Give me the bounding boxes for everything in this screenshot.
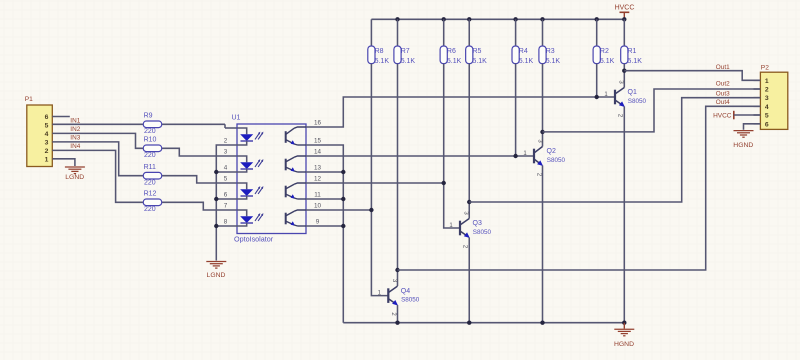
ground HGND (rail) — [614, 323, 634, 349]
svg-text:Out4: Out4 — [716, 99, 730, 106]
svg-text:5.1K: 5.1K — [546, 58, 561, 65]
svg-text:4: 4 — [765, 104, 769, 111]
svg-text:R5: R5 — [472, 48, 481, 55]
svg-text:IN4: IN4 — [70, 143, 80, 150]
svg-text:3: 3 — [45, 139, 49, 146]
svg-text:HVCC: HVCC — [713, 112, 732, 119]
svg-text:2: 2 — [765, 87, 769, 94]
power HVCC (top) — [615, 5, 635, 20]
svg-text:5.1K: 5.1K — [600, 58, 615, 65]
wire Q4 emitter down — [397, 305, 399, 323]
node IN3 label — [70, 134, 80, 141]
svg-text:Out2: Out2 — [716, 81, 730, 88]
diode LED2 of U1 (pins 3,4) — [237, 156, 253, 172]
svg-text:13: 13 — [314, 164, 322, 171]
wire HVCC top rail — [371, 18, 624, 20]
svg-text:3: 3 — [765, 95, 769, 102]
wire U1 pin9 stub to emitter bus — [306, 225, 343, 227]
svg-text:Q3: Q3 — [473, 220, 482, 227]
svg-text:P1: P1 — [25, 96, 33, 103]
wire U1 pin15 emitter common down — [306, 145, 343, 323]
svg-text:LGND: LGND — [65, 174, 84, 181]
svg-text:S8050: S8050 — [628, 98, 647, 105]
diode LED1 of U1 (pins 1,2) — [237, 128, 253, 145]
power HVCC (P2 pin5) — [713, 111, 760, 120]
svg-text:220: 220 — [144, 206, 156, 213]
wire Out2 net (Q2 collector to P2 pin2) — [543, 89, 761, 132]
svg-text:R4: R4 — [519, 48, 528, 55]
svg-text:Q1: Q1 — [628, 89, 637, 96]
svg-text:Out3: Out3 — [716, 91, 730, 98]
svg-text:OptoIsolator: OptoIsolator — [234, 235, 274, 244]
diode LED4 of U1 (pins 7,8) — [237, 210, 253, 226]
svg-text:220: 220 — [144, 179, 156, 186]
svg-text:220: 220 — [144, 152, 156, 159]
ground LGND (U1) — [206, 262, 226, 280]
transistor phototransistor 2 of U1 — [285, 156, 306, 172]
svg-text:Q2: Q2 — [547, 148, 556, 155]
svg-text:S8050: S8050 — [473, 229, 492, 236]
wire Q1 emitter down — [623, 107, 625, 323]
transistor Q1 — [604, 80, 646, 118]
junction dots emitter bus — [341, 170, 345, 228]
light arrows channel 4 — [255, 213, 263, 221]
svg-text:15: 15 — [314, 137, 322, 144]
svg-text:R12: R12 — [144, 191, 157, 198]
svg-text:5.1K: 5.1K — [375, 58, 390, 65]
resistor R2 (5.1K pull-up) — [593, 19, 615, 65]
wire P1 pin6 stub — [52, 116, 70, 118]
svg-text:6: 6 — [45, 114, 49, 121]
wire Out1 net (Q1 collector to P2 pin1) — [624, 71, 760, 81]
svg-text:4: 4 — [224, 164, 228, 171]
svg-text:R9: R9 — [144, 113, 153, 120]
wire R2 bottom to Q1 base net — [596, 64, 598, 97]
svg-text:5: 5 — [45, 123, 49, 130]
svg-text:2: 2 — [224, 137, 228, 144]
svg-text:HVCC: HVCC — [615, 5, 635, 12]
U1 left pin numbers 1-8 — [224, 137, 228, 225]
svg-text:P2: P2 — [761, 65, 769, 72]
connector P2 — [754, 65, 788, 130]
U1 right pin numbers 16-9 — [314, 119, 322, 225]
junction dots collectors — [395, 69, 626, 273]
svg-text:7: 7 — [224, 202, 228, 209]
node IN1 label — [70, 117, 80, 124]
light arrows channel 1 — [255, 132, 263, 140]
transistor phototransistor 4 of U1 — [285, 210, 306, 226]
resistor R11 — [143, 164, 161, 186]
wire Q2 emitter down — [542, 166, 544, 323]
wire P2 pin6 to HGND — [744, 124, 761, 130]
junction dots on HVCC rail — [395, 17, 626, 21]
ground HGND (P2) — [733, 131, 753, 149]
transistor phototransistor 1 of U1 — [285, 127, 306, 145]
svg-text:6: 6 — [765, 121, 769, 128]
wire U1 pin11 stub to emitter bus — [306, 198, 343, 200]
wire R6 bottom then to Q3 base — [444, 64, 460, 228]
light arrows channel 3 — [255, 186, 263, 194]
svg-text:R6: R6 — [447, 48, 456, 55]
svg-text:5.1K: 5.1K — [401, 58, 416, 65]
wire U1 pin13 stub to emitter bus — [306, 171, 343, 173]
junction dots on ground rail — [395, 321, 626, 325]
wire U1 pin10 to R8 junction — [306, 209, 371, 211]
svg-text:R7: R7 — [401, 48, 410, 55]
transistor Q4 — [378, 279, 420, 317]
node Out3 label — [716, 91, 730, 98]
svg-text:5.1K: 5.1K — [519, 58, 534, 65]
svg-text:Q4: Q4 — [401, 288, 410, 295]
svg-text:LGND: LGND — [207, 272, 226, 279]
svg-text:IN2: IN2 — [70, 126, 80, 133]
resistor R12 — [143, 191, 161, 213]
resistor R4 (5.1K pull-up) — [512, 19, 534, 65]
resistor R9 — [143, 113, 161, 135]
svg-text:S8050: S8050 — [547, 157, 566, 164]
junction dots cathode bus — [214, 170, 218, 228]
svg-text:10: 10 — [314, 202, 322, 209]
svg-text:1: 1 — [45, 156, 49, 163]
svg-text:S8050: S8050 — [401, 297, 420, 304]
resistor R5 (5.1K pull-up) — [466, 19, 488, 65]
connector P1 — [25, 96, 53, 166]
node IN4 label — [70, 143, 80, 150]
svg-text:R8: R8 — [375, 48, 384, 55]
junction dots base nets — [369, 95, 599, 212]
node Out4 label — [716, 99, 730, 106]
wire U1 cathode common (pins 2,4,6,8) — [216, 145, 237, 261]
svg-text:U1: U1 — [232, 115, 241, 122]
svg-text:14: 14 — [314, 148, 322, 155]
op-amp U1 body (OptoIsolator) — [232, 115, 307, 244]
svg-text:R10: R10 — [144, 137, 157, 144]
svg-text:8: 8 — [224, 218, 228, 225]
svg-text:5.1K: 5.1K — [447, 58, 462, 65]
svg-text:5: 5 — [224, 175, 228, 182]
svg-text:1: 1 — [765, 78, 769, 85]
svg-text:R1: R1 — [628, 48, 637, 55]
node Out2 label — [716, 81, 730, 88]
node IN2 label — [70, 126, 80, 133]
svg-text:4: 4 — [45, 131, 49, 138]
svg-text:R11: R11 — [144, 164, 156, 171]
svg-text:5.1K: 5.1K — [628, 58, 643, 65]
resistor R7 (5.1K pull-up) — [394, 19, 416, 65]
transistor Q3 — [449, 211, 491, 249]
wire R7 bottom to Q4 collector — [397, 64, 399, 286]
svg-text:IN1: IN1 — [70, 117, 80, 124]
svg-text:HGND: HGND — [733, 142, 753, 149]
svg-text:9: 9 — [316, 218, 320, 225]
wire R5 bottom to Q3 collector — [468, 64, 470, 219]
wire IN2 net (P1 pin4 to R10 to U1 pin3) — [52, 133, 237, 156]
svg-text:IN3: IN3 — [70, 134, 80, 141]
wire R8 bottom then to Q4 base — [371, 64, 388, 296]
svg-text:5.1K: 5.1K — [472, 58, 487, 65]
resistor R1 (5.1K pull-up) — [621, 19, 643, 65]
svg-text:5: 5 — [765, 113, 769, 120]
svg-text:220: 220 — [144, 128, 156, 135]
svg-text:R3: R3 — [546, 48, 555, 55]
transistor Q2 — [523, 139, 565, 177]
wire IN1 net (P1 pin5 to R9 to U1 pin1) — [52, 124, 237, 128]
wire Out3 net (Q3 collector to P2 pin3) — [469, 98, 760, 202]
resistor R10 — [143, 137, 161, 159]
wire Out4 net (Q4 collector to P2 pin4) — [398, 106, 761, 270]
resistor R3 (5.1K pull-up) — [539, 19, 561, 65]
wire IN3 net (P1 pin3 to R11 to U1 pin5) — [52, 142, 237, 183]
node Out1 label — [716, 64, 730, 71]
transistor phototransistor 3 of U1 — [285, 183, 306, 199]
wire R1 bottom to Q1 collector — [623, 64, 625, 88]
wire R4 bottom to Q2 base net — [515, 64, 517, 156]
svg-text:Out1: Out1 — [716, 64, 730, 71]
diode LED3 of U1 (pins 5,6) — [237, 183, 253, 199]
light arrows channel 2 — [255, 159, 263, 167]
wire R3 bottom to Q2 collector — [542, 64, 544, 147]
resistor R8 (5.1K pull-up) — [368, 19, 390, 65]
wire bottom ground rail — [343, 322, 624, 324]
svg-text:12: 12 — [314, 175, 322, 182]
ground LGND (P1) — [65, 167, 85, 181]
svg-text:3: 3 — [224, 148, 228, 155]
resistor R6 (5.1K pull-up) — [440, 19, 462, 65]
svg-text:16: 16 — [314, 119, 322, 126]
wire Q3 emitter down — [468, 238, 470, 323]
wire U1 pin16 to Q1 base — [306, 97, 615, 127]
svg-text:6: 6 — [224, 191, 228, 198]
wire P1 pin1 to LGND — [52, 159, 75, 166]
wire IN4 net (P1 pin2 to R12 to U1 pin7) — [52, 150, 237, 210]
svg-text:HGND: HGND — [614, 341, 634, 348]
svg-text:2: 2 — [45, 148, 49, 155]
svg-text:11: 11 — [314, 191, 321, 198]
wire U1 pin12 to R6 junction — [306, 182, 444, 184]
wire U1 pin14 to Q2 base — [306, 155, 534, 157]
svg-text:R2: R2 — [600, 48, 609, 55]
